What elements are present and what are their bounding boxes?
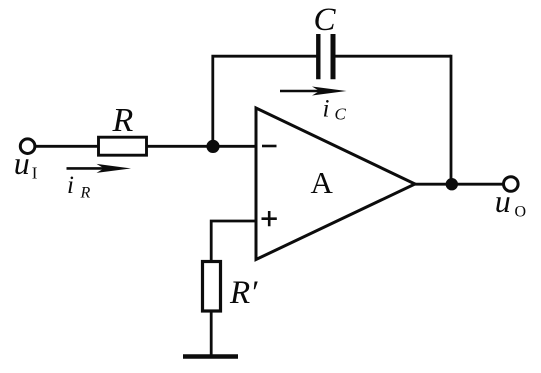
wire non-inverting input <box>211 220 256 261</box>
current arrow i_C <box>280 87 347 96</box>
svg-text:A: A <box>311 165 334 200</box>
wire op-amp output to terminal <box>415 183 503 186</box>
current arrow i_R <box>67 164 132 173</box>
wire resistor R to inverting input <box>146 145 256 148</box>
wire node to feedback (vertical up) <box>211 56 316 148</box>
svg-text:R: R <box>112 102 134 139</box>
ground <box>183 354 238 359</box>
svg-text:C: C <box>335 105 347 124</box>
svg-text:R: R <box>80 185 91 202</box>
svg-text:R′: R′ <box>229 275 258 311</box>
op-amp A <box>256 108 415 260</box>
output terminal u_O <box>504 177 519 192</box>
svg-text:O: O <box>515 204 527 221</box>
capacitor C plates <box>318 34 333 79</box>
svg-text:C: C <box>314 2 337 38</box>
input terminal u_I <box>20 139 35 154</box>
svg-text:I: I <box>32 164 38 183</box>
svg-text:i: i <box>323 96 330 123</box>
svg-text:u: u <box>495 183 511 219</box>
wire right vertical down to output node <box>450 55 453 184</box>
node B (output junction) <box>446 178 458 190</box>
resistor R' <box>203 262 221 312</box>
op-amp minus sign <box>262 145 277 148</box>
node A (inverting input junction) <box>206 140 219 153</box>
svg-text:i: i <box>67 172 74 199</box>
op-amp plus sign <box>262 211 277 226</box>
wire input to resistor R <box>36 145 99 148</box>
resistor R <box>99 137 147 155</box>
wire R' to ground <box>210 311 213 356</box>
wire capacitor to right corner <box>333 55 451 58</box>
svg-text:u: u <box>14 145 30 181</box>
